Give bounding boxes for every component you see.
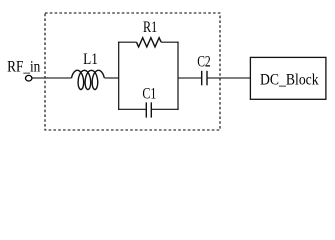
svg-text:C2: C2: [197, 53, 211, 70]
svg-text:R1: R1: [143, 19, 157, 36]
svg-text:L1: L1: [83, 51, 98, 68]
svg-text:RF_in: RF_in: [7, 58, 40, 75]
svg-text:C1: C1: [142, 85, 156, 102]
svg-text:DC_Block: DC_Block: [260, 71, 319, 88]
